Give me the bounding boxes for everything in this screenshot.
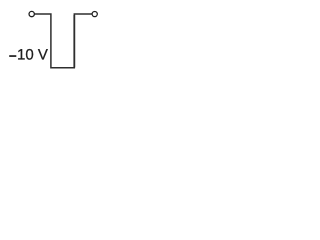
svg-text:10 V: 10 V	[17, 47, 48, 64]
wire: right vertical reinforced	[73, 15, 75, 68]
wire: U-shape from left terminal, down, across bottom, up to right terminal	[35, 14, 92, 68]
terminal circle left	[29, 11, 34, 16]
label minus sign of -10 V	[9, 55, 16, 57]
terminal circle right	[92, 11, 97, 16]
